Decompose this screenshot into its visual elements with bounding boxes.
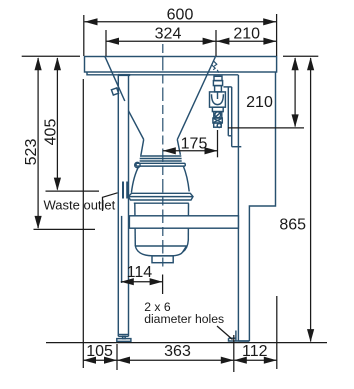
svg-text:405: 405: [43, 119, 60, 146]
svg-text:600: 600: [167, 7, 194, 24]
svg-text:210: 210: [233, 26, 260, 43]
svg-text:diameter holes: diameter holes: [144, 312, 224, 326]
svg-text:175: 175: [181, 136, 208, 153]
svg-text:210: 210: [246, 94, 273, 111]
svg-text:112: 112: [242, 343, 268, 360]
svg-text:Waste outlet: Waste outlet: [44, 198, 116, 213]
svg-text:105: 105: [86, 343, 113, 360]
svg-text:523: 523: [23, 139, 40, 166]
svg-text:363: 363: [164, 343, 191, 360]
svg-text:865: 865: [279, 217, 306, 234]
svg-text:114: 114: [127, 264, 153, 281]
svg-text:324: 324: [155, 26, 182, 43]
